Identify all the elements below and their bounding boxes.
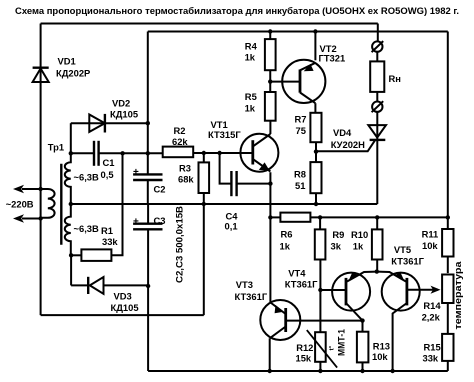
- wire heater drop from rail A: [377, 24, 379, 42]
- svg-text:75: 75: [296, 125, 306, 136]
- node R4 top: [268, 29, 272, 33]
- wire VT3 collector down: [269, 338, 271, 371]
- svg-text:R1: R1: [101, 225, 113, 236]
- transformer secondary lower winding: [65, 204, 99, 285]
- wire emitter rail / R6 rail: [270, 216, 280, 218]
- resistor R5: [245, 82, 276, 121]
- svg-text:C3: C3: [154, 215, 166, 226]
- wire rail B left drop: [147, 32, 149, 154]
- diode VD2: [71, 98, 148, 154]
- svg-text:ГТ321: ГТ321: [319, 53, 346, 64]
- resistor R2: [163, 125, 253, 157]
- svg-text:R14: R14: [423, 300, 441, 311]
- diode VD3: [71, 277, 148, 313]
- svg-text:R2: R2: [174, 125, 186, 136]
- resistor R15: [423, 334, 454, 371]
- capacitor C3: [133, 204, 165, 286]
- svg-text:1k: 1k: [353, 240, 364, 251]
- wire VT1 emitter down to VT3: [269, 172, 271, 302]
- heater resistor Rn: [370, 52, 401, 102]
- node R8 bottom 0V: [314, 202, 318, 206]
- transistor VT2: [270, 43, 345, 103]
- svg-text:2,2k: 2,2k: [422, 311, 441, 322]
- node VD2 cathode: [146, 121, 150, 125]
- wire mains return rail: [41, 314, 204, 316]
- node VT4 base junction: [318, 288, 322, 292]
- svg-text:R4: R4: [245, 41, 258, 52]
- node VT5 collector bottom: [390, 369, 394, 373]
- svg-text:R12: R12: [296, 342, 313, 353]
- svg-text:62k: 62k: [172, 136, 188, 147]
- node C4 right / VT1 emitter: [268, 181, 272, 185]
- svg-text:VD4: VD4: [333, 127, 352, 138]
- node secondary top: [69, 151, 73, 155]
- transformer secondary upper winding: [65, 153, 99, 204]
- resistor R10: [351, 217, 383, 271]
- resistor R11: [422, 229, 454, 274]
- node VT4 collector / R13 top: [360, 318, 364, 322]
- node C1/R1 junction: [120, 151, 124, 155]
- capacitor C4: [220, 153, 272, 232]
- title: [15, 5, 459, 16]
- node R3 bottom 0V: [202, 202, 206, 206]
- svg-text:VD1: VD1: [58, 56, 76, 67]
- node R10 top: [375, 215, 379, 219]
- transistor VT1: [208, 119, 278, 172]
- svg-text:15k: 15k: [296, 353, 312, 364]
- wire rail B: [148, 31, 448, 33]
- svg-text:33k: 33k: [423, 352, 439, 363]
- node primary top junction: [38, 187, 42, 191]
- svg-text:68k: 68k: [178, 174, 194, 185]
- svg-text:температура: температура: [453, 261, 464, 330]
- svg-text:10k: 10k: [422, 240, 438, 251]
- wire -V drop: [147, 286, 149, 371]
- svg-text:R13: R13: [373, 341, 390, 352]
- svg-text:КТ361Г: КТ361Г: [391, 256, 424, 267]
- svg-text:R7: R7: [295, 114, 307, 125]
- transistor VT3: [235, 279, 363, 340]
- transistor VT4: [285, 268, 377, 321]
- wire top rail A: [41, 23, 378, 25]
- wire secondary top rail: [71, 152, 94, 154]
- capacitor C1: [94, 141, 163, 180]
- svg-text:33k: 33k: [102, 236, 118, 247]
- svg-text:1k: 1k: [245, 103, 256, 114]
- resistor R1: [71, 153, 122, 261]
- node R13 bottom: [360, 369, 364, 373]
- svg-text:1k: 1k: [245, 52, 256, 63]
- resistor R8: [294, 162, 322, 204]
- svg-text:R5: R5: [245, 91, 257, 102]
- node R9 top: [318, 215, 322, 219]
- svg-text:VD2: VD2: [112, 98, 130, 109]
- node R3 top: [202, 151, 206, 155]
- svg-text:R15: R15: [424, 342, 441, 353]
- wire 0V-to-return link: [203, 204, 205, 315]
- svg-text:R3: R3: [179, 163, 191, 174]
- node VT2 base: [268, 79, 272, 83]
- svg-text:C2: C2: [154, 184, 166, 195]
- node VD3 cathode / C3 bottom: [146, 284, 150, 288]
- svg-text:Тр1: Тр1: [48, 141, 64, 152]
- node VT3 collector bottom: [268, 369, 272, 373]
- svg-text:t°: t°: [328, 345, 336, 350]
- node secondary bottom / R1 left: [69, 253, 73, 257]
- svg-text:VT3: VT3: [236, 279, 253, 290]
- node primary bottom junction: [38, 216, 42, 220]
- potentiometer R14: [422, 275, 454, 334]
- 220V input arrows: [6, 185, 41, 223]
- svg-text:R8: R8: [294, 169, 306, 180]
- resistor R3: [178, 153, 209, 204]
- wire right rail: [447, 32, 449, 230]
- node VT2 emitter rail B: [313, 29, 317, 33]
- node VT4/VT5 emitters: [375, 269, 379, 273]
- svg-text:R10: R10: [351, 229, 368, 240]
- wire bottom rail: [148, 370, 448, 372]
- svg-text:R9: R9: [332, 229, 344, 240]
- svg-text:КД105: КД105: [111, 302, 139, 313]
- svg-text:R6: R6: [281, 228, 293, 239]
- svg-text:0,5: 0,5: [101, 169, 114, 180]
- svg-text:3k: 3k: [331, 240, 342, 251]
- connector X2: [372, 101, 384, 112]
- resistor R6: [280, 213, 448, 252]
- diode VD1: [33, 56, 91, 83]
- wire VT2 collector down: [314, 103, 316, 113]
- svg-text:Rн: Rн: [389, 73, 402, 84]
- wire VT1 collector up: [269, 121, 271, 134]
- connector X1: [372, 41, 384, 52]
- svg-text:~6,3В: ~6,3В: [74, 223, 100, 234]
- svg-text:Схема пропорционального термос: Схема пропорционального термостабилизато…: [15, 5, 459, 16]
- node R12 bottom: [318, 369, 322, 373]
- wire 0V rail: [71, 203, 378, 205]
- svg-text:1k: 1k: [280, 240, 291, 251]
- node right rail junction: [446, 215, 450, 219]
- svg-text:+: +: [133, 167, 139, 178]
- svg-text:C1: C1: [103, 157, 115, 168]
- wire VT2 emitter up: [314, 32, 316, 61]
- node C4 branch: [217, 151, 221, 155]
- resistor R9: [315, 217, 345, 332]
- resistor R7: [295, 113, 322, 162]
- node VD4 gate junction: [314, 149, 318, 153]
- transformer primary winding: [41, 189, 55, 218]
- svg-text:КТ315Г: КТ315Г: [208, 129, 241, 140]
- resistor R13: [357, 321, 390, 371]
- resistor R4: [245, 32, 276, 82]
- svg-text:КД202Р: КД202Р: [56, 68, 90, 79]
- svg-text:VT5: VT5: [394, 244, 411, 255]
- node R6 left: [268, 215, 272, 219]
- svg-text:ММТ-1: ММТ-1: [336, 329, 347, 356]
- svg-text:10k: 10k: [372, 351, 388, 362]
- svg-text:КТ361Г: КТ361Г: [285, 279, 318, 290]
- wire left vertical: [40, 24, 42, 316]
- node center tap: [69, 202, 73, 206]
- capacitor C2: [133, 153, 165, 204]
- transformer T1 core: [60, 164, 62, 245]
- svg-text:R11: R11: [422, 229, 439, 240]
- svg-text:VD3: VD3: [114, 291, 132, 302]
- thyristor VD4: [316, 112, 386, 204]
- svg-text:0,1: 0,1: [225, 221, 238, 232]
- thermistor R12 MMT-1: [296, 329, 347, 371]
- svg-text:КУ202Н: КУ202Н: [331, 139, 365, 150]
- svg-text:51: 51: [295, 180, 305, 191]
- svg-text:C2,C3 500,0х15В: C2,C3 500,0х15В: [174, 206, 184, 283]
- svg-text:+: +: [133, 217, 139, 228]
- svg-text:VT4: VT4: [288, 268, 306, 279]
- svg-text:~220В: ~220В: [6, 199, 34, 210]
- svg-text:~6,3В: ~6,3В: [74, 172, 100, 183]
- svg-text:КД105: КД105: [110, 109, 138, 120]
- svg-text:КТ361Г: КТ361Г: [235, 291, 268, 302]
- node +V junction: [146, 151, 150, 155]
- transistor VT5: [377, 244, 441, 371]
